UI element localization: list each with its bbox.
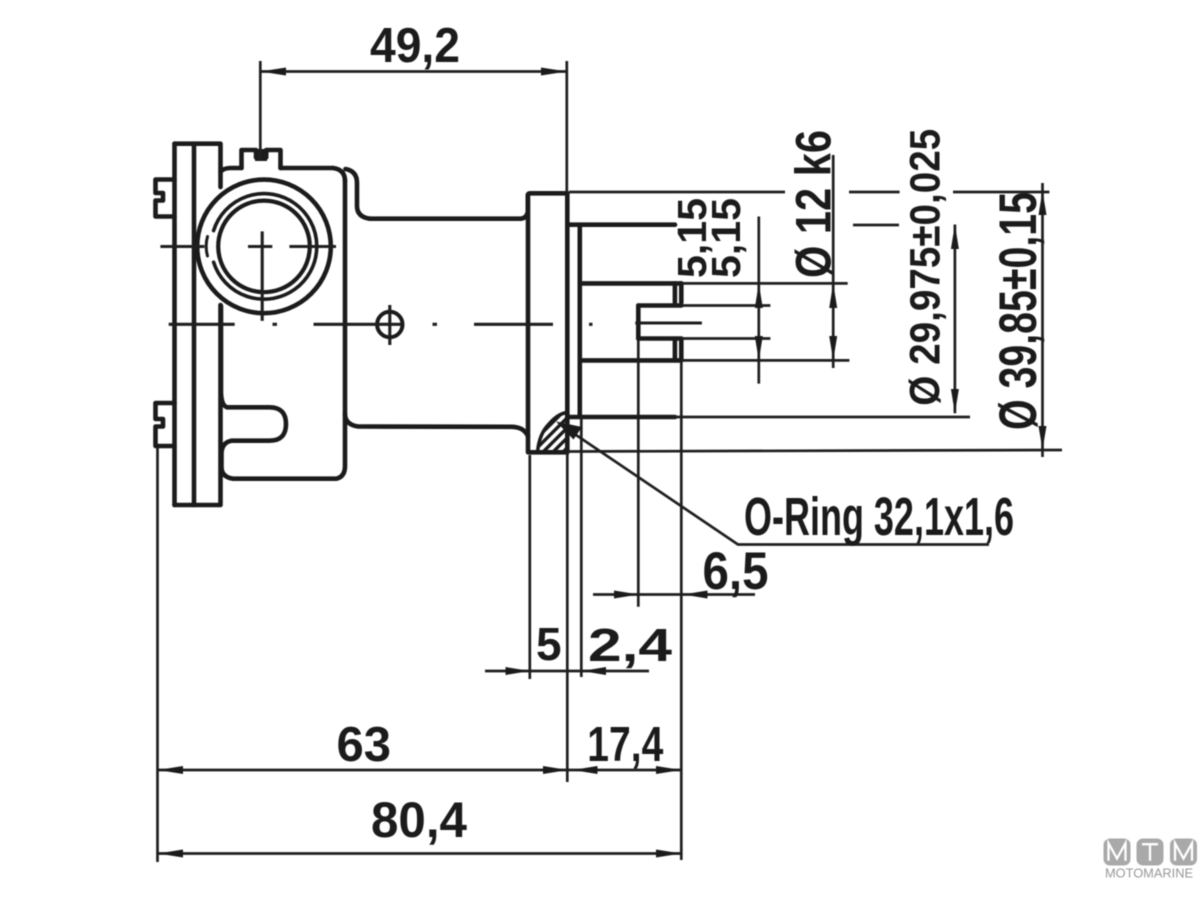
- svg-text:2,4: 2,4: [588, 619, 673, 671]
- arrow 17,4 right: [656, 766, 681, 774]
- shaft end chamfer lower: [673, 340, 678, 361]
- svg-text:Ø 12 k6: Ø 12 k6: [786, 130, 842, 278]
- arrow 17,4 left: [573, 766, 598, 774]
- dim Ø39,85 line: [1041, 183, 1044, 457]
- port mid circle fragment: [206, 237, 207, 257]
- arrow 49,2 left: [260, 68, 286, 76]
- port mid circle: [214, 194, 317, 300]
- keyway left end: [636, 306, 641, 339]
- port vertical centerline: [261, 231, 264, 321]
- small hole vertical centerline: [388, 305, 391, 345]
- shaft end extension down: [680, 360, 683, 860]
- o-ring section hatched: [525, 413, 592, 459]
- dim Ø12 line: [832, 155, 835, 368]
- tab left extension down: [156, 448, 159, 862]
- tube top extension: [853, 224, 899, 227]
- svg-text:Ø 29,975±0,025: Ø 29,975±0,025: [902, 129, 950, 406]
- arrow 49,2 right: [541, 68, 567, 76]
- lug notch blob: [255, 149, 267, 161]
- flange: [528, 193, 568, 452]
- logo square M2: [1170, 839, 1197, 866]
- arrow Ø39,85 up: [1039, 191, 1047, 215]
- tube face extension down: [580, 417, 583, 677]
- arrow 5 left outside: [506, 667, 530, 675]
- svg-text:5: 5: [536, 618, 562, 670]
- mounting plate bottom edge: [175, 503, 220, 508]
- shaft end face upper: [679, 283, 684, 302]
- thin lines: centerlines: [160, 231, 702, 345]
- port boss outer circle: [197, 180, 331, 314]
- mounting plate top edge: [175, 141, 220, 146]
- arrow 80,4 left: [158, 850, 183, 858]
- arrow 80,4 right: [656, 850, 681, 858]
- flange top extension: [569, 191, 1049, 194]
- o-ring leader line: [562, 426, 989, 545]
- body top edge: [221, 168, 334, 172]
- svg-text:O-Ring 32,1x1,6: O-Ring 32,1x1,6: [744, 487, 1014, 547]
- arrow 63 left: [158, 766, 183, 774]
- dim 5,15 line: [757, 217, 760, 384]
- shaft top edge: [581, 281, 681, 286]
- bearing tube top edge: [567, 222, 675, 227]
- svg-text:49,2: 49,2: [370, 19, 460, 73]
- logo square M1: [1104, 839, 1131, 866]
- mid section bottom edge: [345, 414, 528, 436]
- mounting plate left edge: [172, 144, 177, 505]
- dim 80,4 line: [158, 852, 682, 855]
- dim 49,2 line: [260, 70, 567, 73]
- arrow 6,5 right outside: [683, 591, 708, 599]
- shaft end chamfer upper: [673, 283, 678, 302]
- body top step outer curve: [333, 168, 345, 181]
- flange right extension down: [566, 452, 569, 782]
- mounting plate right edge lower: [218, 305, 223, 505]
- svg-text:80,4: 80,4: [371, 792, 467, 848]
- svg-text:MOTOMARINE: MOTOMARINE: [1105, 866, 1193, 881]
- tube bottom extension: [675, 416, 970, 419]
- logo square T: [1137, 839, 1164, 866]
- bearing tube face ring: [577, 228, 582, 415]
- flange left bottom extension down: [528, 455, 531, 679]
- keyway bottom stub extension: [681, 337, 770, 340]
- logo letter M1: [1109, 843, 1126, 861]
- svg-text:5,15: 5,15: [703, 198, 749, 278]
- shaft end face lower: [679, 340, 684, 361]
- mounting plate inner line: [192, 144, 197, 505]
- dim 63 / 17,4 line: [158, 769, 682, 772]
- arrow 5,15 line up: [755, 283, 763, 308]
- mounting plate right edge upper: [218, 144, 223, 187]
- arrow 2,4 right outside: [582, 667, 606, 675]
- body top step inner curve: [346, 169, 371, 219]
- logo letter M2: [1175, 843, 1192, 861]
- shaft bottom extension: [681, 359, 849, 362]
- arrow Ø12 down: [829, 336, 837, 360]
- bottom slot tab: [156, 403, 175, 446]
- small hole: [377, 312, 402, 337]
- arrow Ø29,975 up: [951, 225, 959, 250]
- arrowheads: [158, 68, 1047, 858]
- arrow o-ring leader: [556, 422, 582, 440]
- bearing tube bottom edge: [567, 415, 675, 420]
- keyway left extension down: [637, 339, 640, 607]
- dim 49,2 left extension: [259, 61, 262, 160]
- port horizontal centerline: [160, 245, 336, 248]
- dim 49,2 right extension: [565, 61, 568, 193]
- svg-text:Ø 39,85±0,15: Ø 39,85±0,15: [989, 192, 1048, 430]
- shaft centerline: [169, 323, 593, 326]
- dim 6,5 line: [593, 593, 755, 596]
- arrow Ø29,975 down: [951, 389, 959, 413]
- flange bottom extension: [567, 450, 1062, 452]
- shaft bottom edge: [581, 358, 681, 363]
- dimension texts: [337, 19, 1049, 848]
- port inner circle: [218, 201, 310, 293]
- arrow 63 right: [543, 766, 568, 774]
- svg-text:6,5: 6,5: [703, 542, 769, 601]
- foot recess outline: [221, 306, 286, 468]
- keyway top edge: [638, 303, 681, 308]
- arrow 6,5 left outside: [614, 591, 639, 599]
- MTM logo: [1104, 839, 1198, 881]
- logo letter T: [1142, 844, 1158, 861]
- svg-text:17,4: 17,4: [587, 718, 663, 772]
- keyway centerline: [635, 321, 702, 324]
- top lug: [242, 150, 281, 168]
- top slot tab: [156, 180, 175, 217]
- body right edge: [336, 181, 345, 479]
- dim Ø29,975 line: [954, 225, 957, 414]
- shaft top extension: [681, 282, 847, 285]
- keyway bottom edge: [638, 336, 681, 341]
- arrow Ø12 up: [829, 283, 837, 308]
- thin lines: extension and dimension lines: [158, 61, 1063, 862]
- keyway top stub extension: [681, 304, 770, 307]
- dim 5 / 2,4 line: [485, 670, 649, 673]
- mid section top edge: [370, 212, 528, 219]
- svg-text:63: 63: [337, 718, 392, 772]
- arrow Ø39,85 down: [1039, 426, 1047, 450]
- arrow 5,15 line down: [755, 336, 763, 360]
- body bottom edge: [222, 468, 337, 479]
